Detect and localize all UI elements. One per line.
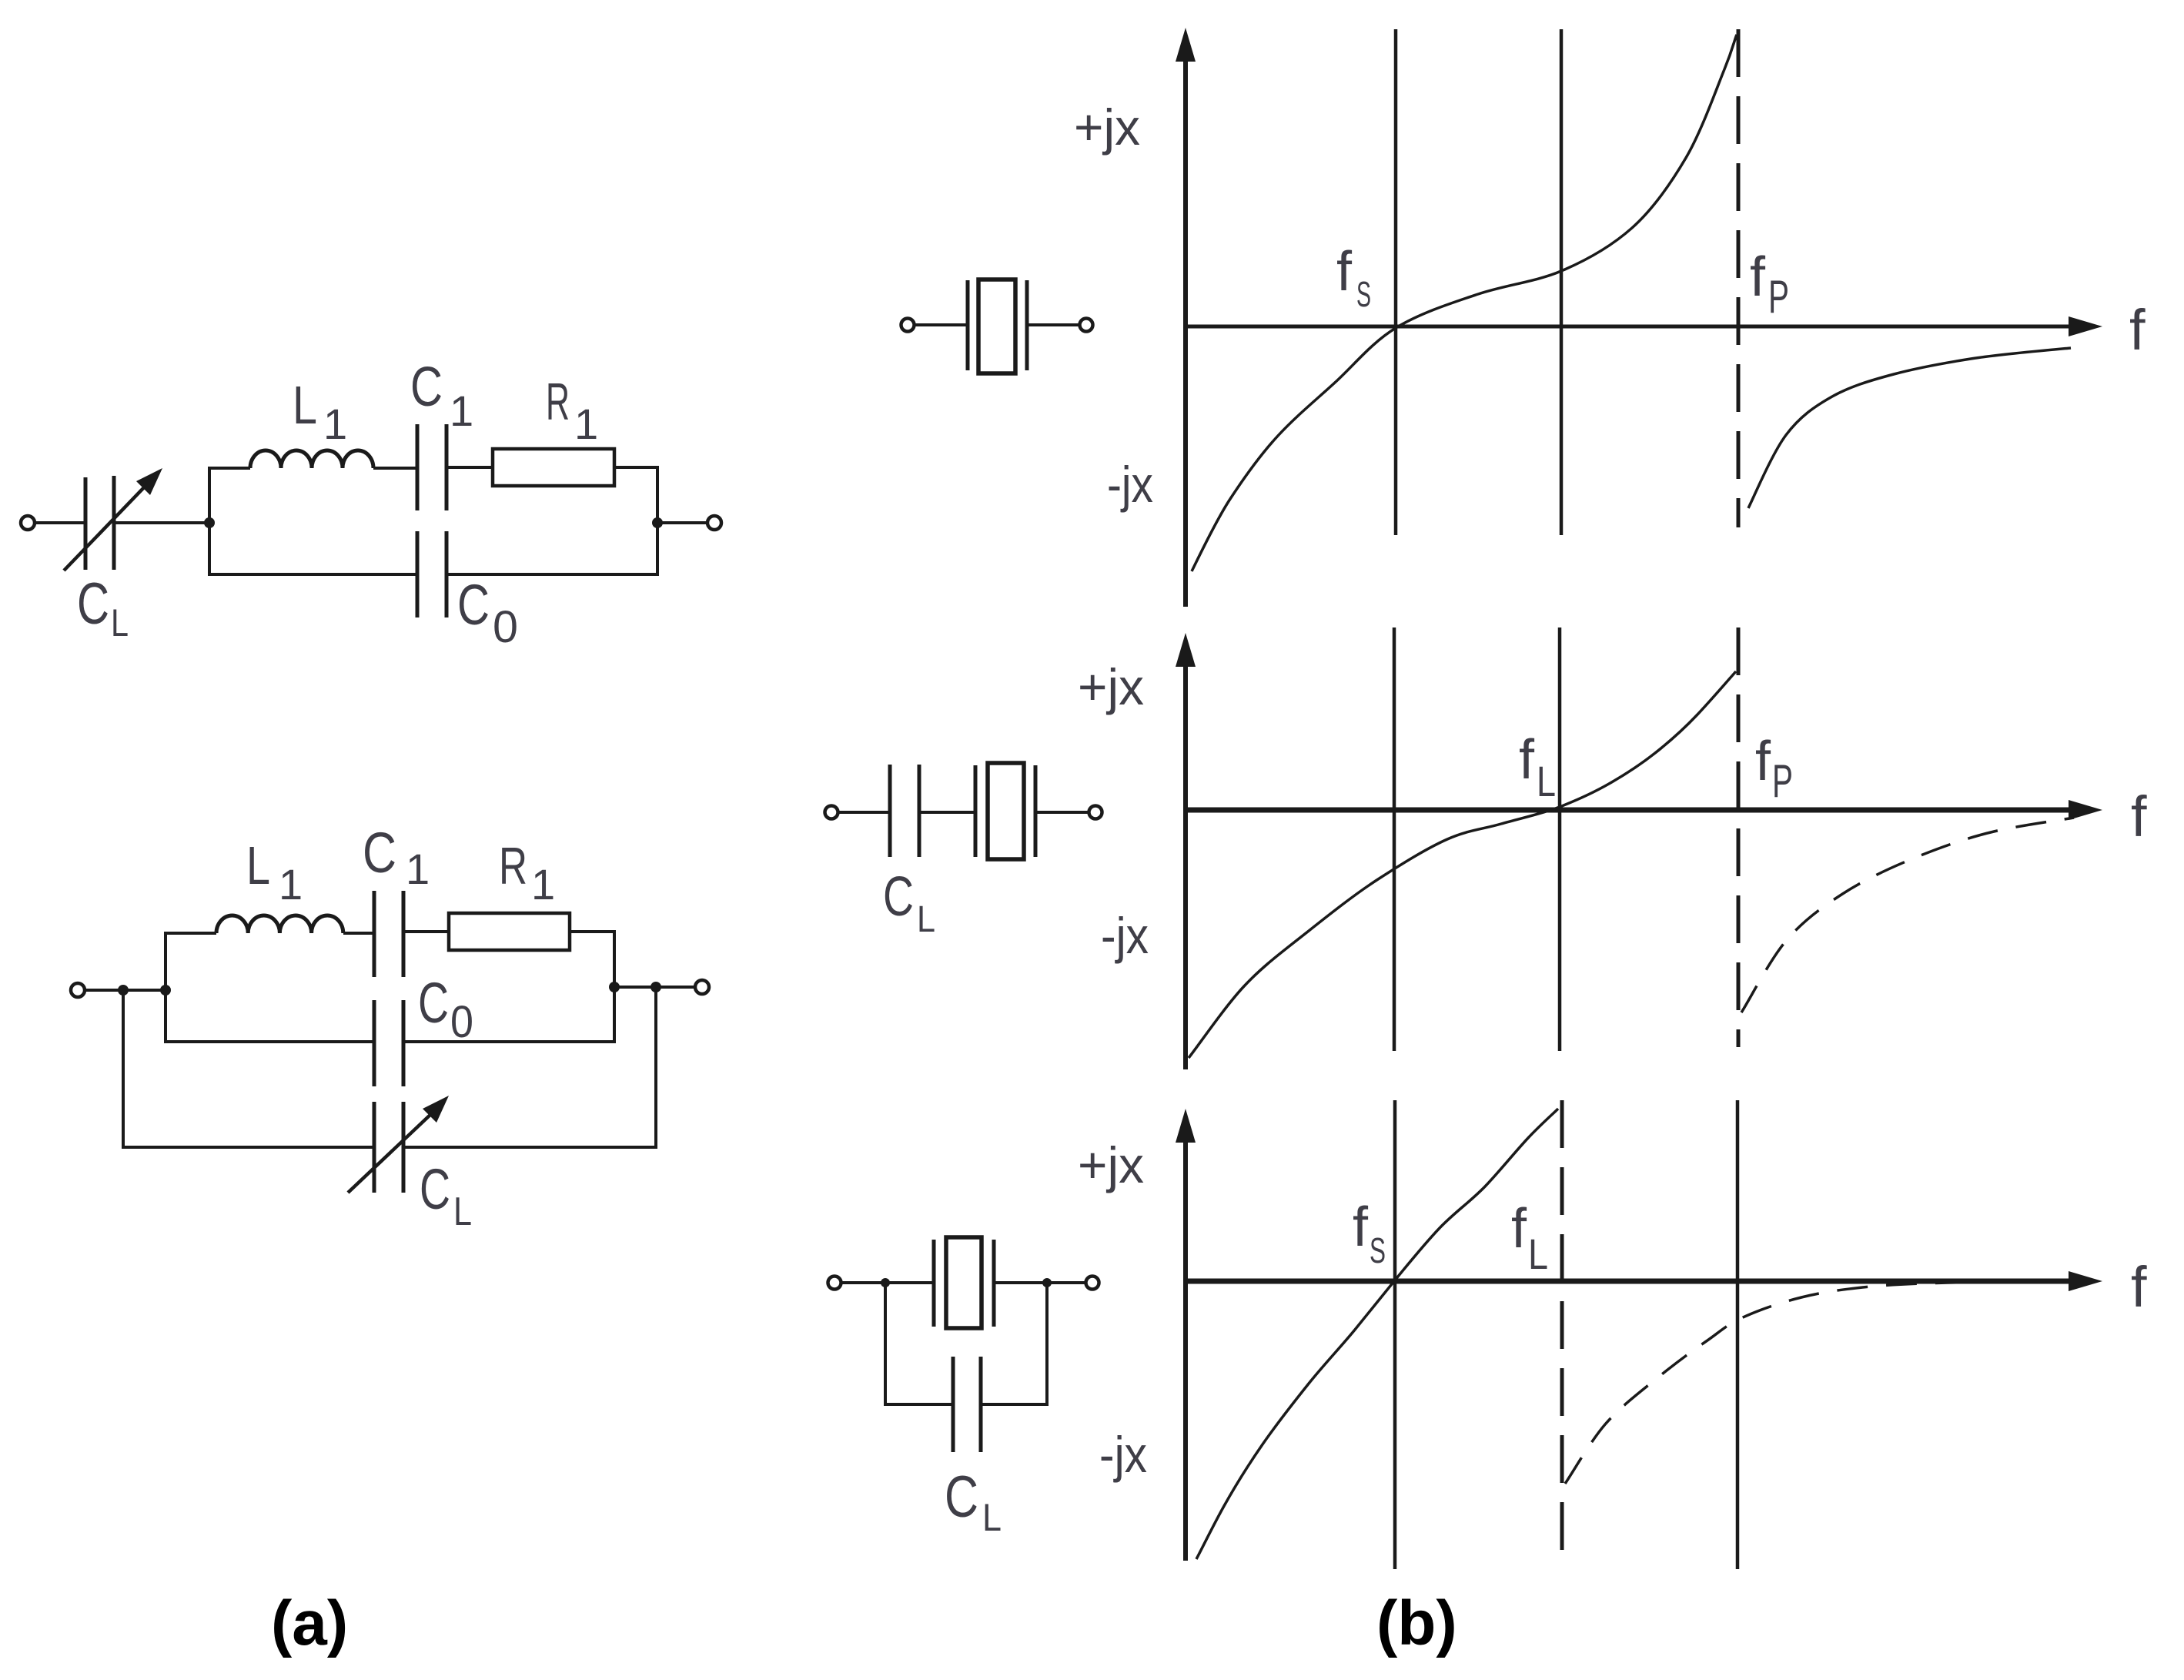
svg-text:f: f xyxy=(1353,1196,1369,1258)
svg-text:S: S xyxy=(1356,274,1371,314)
svg-text:R: R xyxy=(546,373,570,431)
svg-text:L: L xyxy=(453,1190,472,1234)
svg-text:L: L xyxy=(982,1496,1002,1539)
svg-text:f: f xyxy=(1511,1198,1527,1260)
svg-text:-jx: -jx xyxy=(1099,1426,1147,1483)
svg-text:L: L xyxy=(111,601,129,644)
svg-text:(a): (a) xyxy=(271,1588,348,1658)
svg-text:f: f xyxy=(2131,1255,2147,1319)
svg-text:+jx: +jx xyxy=(1078,1136,1144,1193)
svg-text:C: C xyxy=(883,866,914,928)
svg-text:L: L xyxy=(1537,757,1556,805)
svg-text:f: f xyxy=(1336,241,1353,303)
svg-text:f: f xyxy=(2129,298,2146,362)
svg-text:L: L xyxy=(917,899,935,940)
svg-text:f: f xyxy=(2131,785,2147,848)
svg-text:f: f xyxy=(1750,246,1766,308)
svg-text:P: P xyxy=(1772,755,1793,807)
svg-text:L: L xyxy=(293,375,317,435)
svg-text:1: 1 xyxy=(450,387,473,435)
svg-text:1: 1 xyxy=(531,860,555,909)
svg-text:C: C xyxy=(945,1464,978,1530)
svg-text:0: 0 xyxy=(450,997,473,1047)
svg-text:C: C xyxy=(77,571,109,637)
svg-text:f: f xyxy=(1519,729,1535,791)
svg-text:1: 1 xyxy=(406,845,430,893)
svg-text:L: L xyxy=(1528,1230,1548,1278)
svg-text:1: 1 xyxy=(323,400,347,448)
svg-text:1: 1 xyxy=(574,400,598,448)
svg-text:f: f xyxy=(1755,731,1771,792)
svg-text:0: 0 xyxy=(493,602,518,652)
svg-text:C: C xyxy=(420,1157,450,1221)
svg-text:C: C xyxy=(363,821,396,885)
svg-text:-jx: -jx xyxy=(1101,907,1149,964)
svg-text:+jx: +jx xyxy=(1074,99,1140,156)
svg-text:C: C xyxy=(410,356,443,418)
svg-text:+jx: +jx xyxy=(1078,658,1144,715)
svg-text:1: 1 xyxy=(279,860,303,909)
svg-text:(b): (b) xyxy=(1376,1588,1457,1658)
svg-text:-jx: -jx xyxy=(1107,456,1153,513)
svg-text:P: P xyxy=(1768,271,1789,323)
svg-text:L: L xyxy=(246,835,270,895)
svg-text:S: S xyxy=(1370,1230,1386,1270)
svg-text:R: R xyxy=(499,837,527,895)
svg-text:C: C xyxy=(457,573,490,637)
svg-text:C: C xyxy=(418,971,449,1035)
